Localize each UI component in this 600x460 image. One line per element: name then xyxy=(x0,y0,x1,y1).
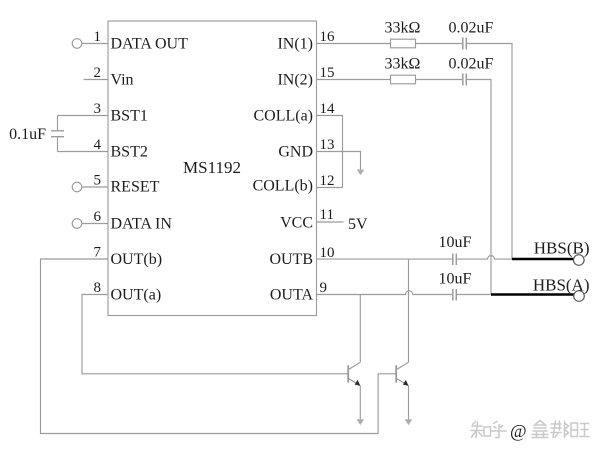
pin 6 terminal circle xyxy=(72,219,82,229)
wire pin 11 VCC stub xyxy=(317,221,344,223)
svg-text:2: 2 xyxy=(94,65,102,81)
wire pin 7 OUT(b) net xyxy=(41,259,379,434)
svg-text:HBS(A): HBS(A) xyxy=(533,276,590,295)
svg-text:IN(1): IN(1) xyxy=(277,36,313,53)
char hu xyxy=(491,422,506,438)
svg-text:33kΩ: 33kΩ xyxy=(385,20,421,37)
IC body MS1192 xyxy=(108,21,317,316)
wire pin 14 COLL(a) xyxy=(317,116,343,188)
capacitor C5 10uF plates xyxy=(452,289,454,301)
capacitor C2 0.02uF plates xyxy=(462,38,464,50)
wire pin 1 xyxy=(82,43,108,45)
wire pin 5 xyxy=(82,186,108,188)
wire pin 15 to resistor R2 xyxy=(317,79,391,81)
svg-text:OUT(a): OUT(a) xyxy=(111,287,162,304)
pin 1 terminal circle xyxy=(72,39,82,49)
wire pin 16 to resistor R1 xyxy=(317,43,391,45)
svg-text:15: 15 xyxy=(320,65,335,81)
wire pin 2 xyxy=(84,79,109,81)
svg-text:11: 11 xyxy=(320,207,334,223)
svg-text:0.1uF: 0.1uF xyxy=(9,126,46,143)
svg-text:6: 6 xyxy=(94,209,102,225)
ground arrow Q1 emitter xyxy=(357,419,365,425)
svg-text:COLL(b): COLL(b) xyxy=(253,178,313,195)
wire cap C1 top lead xyxy=(57,116,59,131)
svg-text:16: 16 xyxy=(320,29,336,45)
wire Q2 collector vertical xyxy=(408,259,410,362)
svg-text:Vin: Vin xyxy=(111,72,134,89)
wire R2 to C3 xyxy=(416,79,463,81)
wire pin 8 OUT(a) net xyxy=(82,295,348,374)
terminal circle HBS(B) xyxy=(574,255,585,266)
terminal circle HBS(A) xyxy=(574,291,585,302)
wire pin 4 BST2 xyxy=(58,151,109,153)
svg-text:0.02uF: 0.02uF xyxy=(449,56,494,73)
wire pin 13 GND xyxy=(317,152,361,170)
wire Q1 emitter vertical xyxy=(359,386,361,420)
svg-text:10uF: 10uF xyxy=(439,271,472,288)
svg-text:BST2: BST2 xyxy=(111,144,148,161)
wire R1 to C2 xyxy=(416,43,463,45)
char zhi xyxy=(471,422,491,438)
watermark zhihu xyxy=(471,421,589,442)
svg-text:@: @ xyxy=(510,421,527,441)
wire C2 to node HBSB vertical xyxy=(467,44,512,260)
ground arrow pin 13 xyxy=(357,170,365,176)
svg-text:14: 14 xyxy=(320,101,336,117)
capacitor C1 0.1uF plates xyxy=(51,130,64,132)
svg-text:IN(2): IN(2) xyxy=(277,72,313,89)
svg-text:10: 10 xyxy=(320,245,335,261)
svg-text:10uF: 10uF xyxy=(439,234,472,251)
svg-text:MS1192: MS1192 xyxy=(183,158,241,177)
wire Q2 emitter vertical xyxy=(408,386,410,420)
svg-text:RESET: RESET xyxy=(111,179,160,196)
svg-text:COLL(a): COLL(a) xyxy=(253,108,313,125)
svg-text:8: 8 xyxy=(94,280,102,296)
svg-text:9: 9 xyxy=(320,280,328,296)
wire cap C1 bottom lead xyxy=(57,137,59,151)
output HBS(B) thick lead xyxy=(512,258,574,260)
wire C4 to HBSB with hop over vertical xyxy=(457,256,512,259)
capacitor C3 0.02uF plates xyxy=(462,74,464,86)
wire pin 3 BST1 xyxy=(58,115,109,117)
ground arrow Q2 emitter xyxy=(405,419,413,425)
svg-text:12: 12 xyxy=(320,173,335,189)
wire C3 to node HBSA vertical xyxy=(467,80,491,295)
pin 5 terminal circle xyxy=(72,182,82,192)
wire pin 10 OUTB to cap C4 xyxy=(317,258,453,260)
resistor R2 33k xyxy=(391,75,416,84)
svg-text:OUTB: OUTB xyxy=(269,251,313,268)
transistor Q1 xyxy=(348,362,360,385)
svg-text:GND: GND xyxy=(278,144,313,161)
output HBS(A) thick lead xyxy=(491,293,574,295)
svg-text:3: 3 xyxy=(94,101,102,117)
wire C5 to HBSA xyxy=(457,294,491,296)
svg-text:HBS(B): HBS(B) xyxy=(534,239,590,258)
svg-text:7: 7 xyxy=(94,245,102,261)
transistor Q2 xyxy=(378,362,408,385)
svg-text:OUTA: OUTA xyxy=(270,287,314,304)
svg-text:5: 5 xyxy=(94,173,102,189)
svg-text:0.02uF: 0.02uF xyxy=(449,20,494,37)
wire pin 6 xyxy=(82,223,108,225)
char wang xyxy=(571,423,589,437)
pin name labels xyxy=(111,36,314,304)
svg-text:13: 13 xyxy=(320,137,335,153)
char bang xyxy=(551,421,569,438)
char xin xyxy=(532,421,548,438)
wire pin 9 OUTA to cap C5 with hop over Q2 collector xyxy=(317,291,453,295)
svg-text:33kΩ: 33kΩ xyxy=(385,56,421,73)
svg-text:DATA IN: DATA IN xyxy=(111,216,173,233)
svg-text:DATA OUT: DATA OUT xyxy=(111,36,189,53)
svg-text:5V: 5V xyxy=(348,216,368,233)
resistor R1 33k xyxy=(391,39,416,48)
svg-text:VCC: VCC xyxy=(280,215,313,232)
pin numbers xyxy=(94,29,336,296)
svg-text:4: 4 xyxy=(94,137,102,153)
svg-text:1: 1 xyxy=(94,29,102,45)
wire pin 12 COLL(b) xyxy=(317,187,343,189)
wire Q1 collector vertical xyxy=(359,295,361,363)
svg-text:OUT(b): OUT(b) xyxy=(111,251,163,268)
svg-text:BST1: BST1 xyxy=(111,108,148,125)
capacitor C4 10uF plates xyxy=(452,254,454,266)
